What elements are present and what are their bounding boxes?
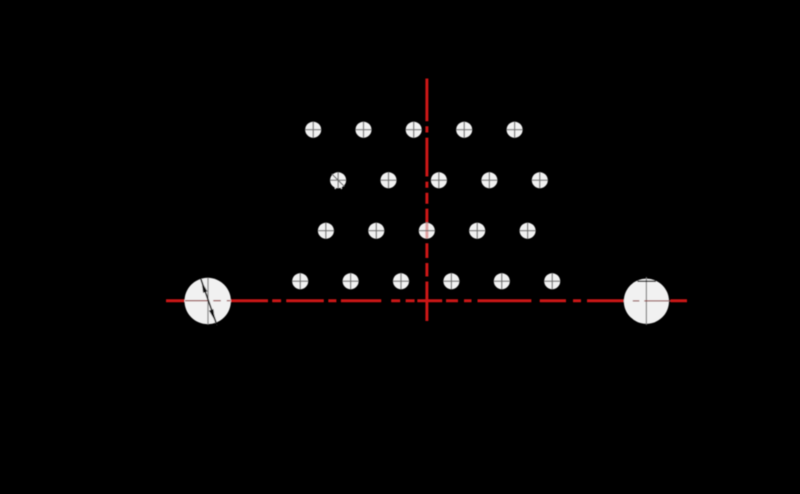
small hole R4-1 [292,273,309,290]
vertical centerline (red dash-dot) [425,79,428,322]
small hole R3-1 [318,222,335,239]
small hole R2-4 [481,172,498,189]
right hole horizontal center mark (thin red) [633,300,671,302]
dimension extension line over right hole (black chord) [637,280,656,282]
small hole R1-2 [355,121,372,138]
small hole R4-3 [393,273,410,290]
small hole R2-1 [330,172,347,189]
small hole R3-5 [519,222,536,239]
small hole R3-4 [469,222,486,239]
small hole R3-2 [368,222,385,239]
right large hole [624,279,669,324]
small hole R3-3 [419,223,436,239]
small hole R1-3 [405,121,422,138]
left large hole [185,278,231,324]
small hole R4-4 [443,273,460,290]
left hole horizontal center mark (thin red) [185,300,230,302]
small hole R1-5 [506,121,523,138]
small hole R2-5 [532,172,549,189]
small hole R2-2 [380,172,397,189]
right hole vertical center mark [645,277,647,325]
small hole R4-6 [544,273,561,290]
diameter dimension line with arrows (black) [201,278,218,326]
small hole R1-4 [456,121,473,138]
small hole R4-5 [494,273,511,290]
small hole R2-3 [431,172,448,189]
small hole R4-2 [342,273,359,290]
small hole R1-1 [305,121,322,138]
left hole vertical center mark [207,278,209,325]
horizontal centerline (red dash-dot) [166,299,687,302]
